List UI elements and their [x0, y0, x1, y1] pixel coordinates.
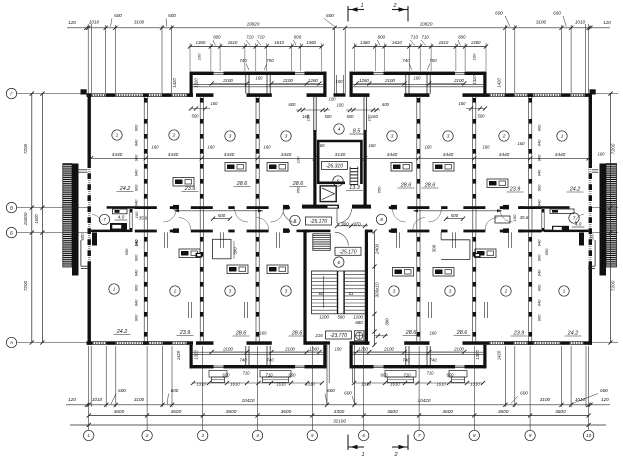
piers on axis A line inside bottom bays — [196, 341, 214, 345]
svg-text:28.6: 28.6 — [291, 331, 303, 337]
svg-text:3: 3 — [447, 134, 450, 139]
left balcony hatched strip — [63, 164, 72, 268]
upper stair flight (hatched) — [313, 234, 331, 251]
svg-text:680: 680 — [355, 320, 363, 325]
svg-text:100: 100 — [336, 79, 344, 84]
svg-text:13.3: 13.3 — [349, 185, 360, 191]
svg-text:3440: 3440 — [112, 152, 123, 158]
svg-text:940: 940 — [134, 269, 139, 276]
svg-text:1: 1 — [361, 452, 364, 458]
svg-text:3600: 3600 — [555, 409, 566, 415]
svg-text:600: 600 — [80, 233, 85, 241]
svg-text:940: 940 — [537, 299, 542, 306]
bottom main dimension chain — [66, 404, 610, 406]
svg-text:2100: 2100 — [384, 78, 395, 83]
svg-text:-23.770: -23.770 — [330, 333, 347, 339]
svg-text:4.0: 4.0 — [118, 215, 125, 221]
svg-text:1260: 1260 — [308, 78, 318, 83]
stair enclosure right wall lower — [365, 230, 368, 345]
svg-text:10420: 10420 — [242, 398, 255, 403]
left balcony top connector — [78, 169, 88, 171]
svg-text:1610: 1610 — [274, 40, 284, 45]
bay side wall right — [483, 72, 486, 97]
ventilation block — [173, 178, 194, 187]
svg-text:1420: 1420 — [497, 350, 502, 360]
ventilation block — [433, 163, 454, 172]
svg-text:3440: 3440 — [168, 152, 179, 158]
svg-text:900: 900 — [134, 124, 139, 131]
window gaps in left outer wall at balcony — [88, 168, 91, 173]
top-right corner pier outside wall — [590, 89, 596, 94]
piers on axis G line inside bays — [196, 93, 214, 97]
corridor wall stubs on axis V — [170, 206, 176, 209]
right balcony hatched strip — [606, 164, 617, 268]
svg-text:3600: 3600 — [114, 409, 125, 415]
svg-text:160: 160 — [430, 331, 438, 336]
svg-text:600: 600 — [344, 391, 352, 396]
svg-text:3440: 3440 — [555, 152, 566, 158]
T-stub walls hanging from corridor walls — [164, 232, 166, 248]
svg-text:3600: 3600 — [281, 409, 292, 415]
svg-text:710: 710 — [243, 371, 251, 376]
corridor walls: T-flanges at partitions and stubs with door gaps — [135, 206, 157, 209]
svg-text:600: 600 — [378, 35, 386, 40]
bay side wall left — [190, 72, 193, 97]
window band above bottom bays — [193, 351, 324, 353]
second top chain over bay 2 — [354, 46, 486, 48]
svg-text:710: 710 — [422, 35, 430, 40]
svg-text:В: В — [10, 205, 13, 210]
svg-text:32100: 32100 — [333, 419, 346, 424]
interior partition wall at x=146 — [143, 232, 145, 341]
svg-text:8: 8 — [380, 217, 383, 222]
svg-text:500: 500 — [325, 114, 333, 119]
svg-text:3: 3 — [285, 289, 288, 294]
svg-text:160: 160 — [256, 76, 264, 81]
extension lines top — [105, 25, 107, 93]
svg-text:3600: 3600 — [226, 409, 237, 415]
left axis extension lines — [17, 93, 88, 95]
svg-text:6: 6 — [338, 260, 341, 265]
top-left corner pier outside wall — [81, 89, 87, 94]
svg-text:1010: 1010 — [89, 20, 100, 25]
svg-text:600: 600 — [289, 373, 297, 378]
interior partition wall at x=258 — [255, 232, 257, 341]
svg-text:900: 900 — [537, 254, 542, 261]
svg-text:160: 160 — [598, 152, 606, 157]
svg-text:2: 2 — [173, 289, 177, 294]
svg-text:120: 120 — [68, 20, 76, 25]
svg-text:580: 580 — [337, 315, 345, 320]
left vertical chain 7200/1600/7200 — [31, 94, 33, 343]
svg-text:2: 2 — [392, 3, 396, 9]
ventilation block — [433, 268, 454, 277]
svg-text:740: 740 — [402, 58, 410, 63]
svg-text:10820: 10820 — [420, 22, 433, 27]
svg-text:940: 940 — [537, 269, 542, 276]
svg-text:8: 8 — [294, 218, 297, 223]
stair enclosure left wall lower — [303, 230, 306, 345]
svg-text:Б: Б — [10, 230, 13, 235]
duct square on partition lower-left — [196, 253, 203, 258]
svg-text:160: 160 — [367, 114, 372, 121]
svg-text:900: 900 — [134, 284, 139, 291]
svg-text:1420: 1420 — [172, 78, 177, 88]
svg-text:1360: 1360 — [360, 40, 370, 45]
svg-text:28.6: 28.6 — [235, 331, 247, 337]
svg-text:160: 160 — [425, 145, 433, 150]
svg-text:100: 100 — [329, 97, 337, 102]
door arc at stair top — [337, 209, 352, 224]
ventilation block — [267, 163, 288, 172]
svg-text:1600: 1600 — [34, 214, 39, 224]
svg-text:120: 120 — [601, 397, 609, 402]
svg-text:650: 650 — [296, 186, 301, 193]
entrance steps below bottom bays — [209, 371, 227, 378]
short wall stubs below axis-B wall in lower rooms — [188, 302, 190, 318]
svg-text:2100: 2100 — [284, 347, 295, 352]
svg-text:10: 10 — [586, 433, 592, 438]
svg-text:8.5: 8.5 — [353, 129, 361, 135]
svg-text:600: 600 — [327, 388, 335, 393]
svg-text:710: 710 — [411, 35, 419, 40]
svg-text:1610: 1610 — [392, 40, 402, 45]
floor drain symbol — [355, 331, 365, 341]
svg-text:1200: 1200 — [353, 315, 363, 320]
stair arrow line — [323, 276, 325, 308]
svg-text:1610: 1610 — [276, 382, 286, 387]
interior partition wall at x=418 — [416, 232, 418, 341]
interior partition wall at x=530 — [528, 232, 530, 341]
svg-text:23.9: 23.9 — [513, 331, 525, 337]
bay notch partition walls (bottom) — [405, 346, 407, 365]
svg-text:500: 500 — [192, 114, 200, 119]
svg-text:10820: 10820 — [247, 22, 260, 27]
svg-text:160: 160 — [369, 143, 377, 148]
svg-text:24.2: 24.2 — [119, 186, 131, 192]
svg-text:3140: 3140 — [335, 152, 346, 158]
svg-text:3: 3 — [393, 289, 396, 294]
svg-text:3100: 3100 — [134, 20, 145, 25]
stair core left wall upper — [313, 97, 315, 131]
svg-text:160: 160 — [211, 101, 219, 106]
svg-text:710: 710 — [266, 373, 274, 378]
middle recess slot between bottom bays — [326, 345, 328, 405]
bay notch partition walls (bottom) — [245, 346, 247, 365]
interior partition wall at x=474 — [472, 232, 474, 341]
svg-text:3: 3 — [285, 134, 288, 139]
svg-text:16000: 16000 — [23, 212, 28, 225]
svg-text:3: 3 — [229, 134, 232, 139]
right balcony bottom connector — [594, 240, 596, 266]
svg-text:7200: 7200 — [611, 280, 617, 291]
svg-text:4: 4 — [256, 433, 259, 438]
svg-text:750: 750 — [429, 58, 437, 63]
outer wall: top wall along axis G, right part with windows — [483, 93, 490, 97]
svg-text:3100: 3100 — [134, 397, 145, 402]
storage square lower-left with 500 dim — [213, 239, 232, 258]
svg-text:900: 900 — [134, 254, 139, 261]
svg-text:740: 740 — [266, 358, 274, 363]
svg-text:60: 60 — [319, 291, 324, 296]
level mark box -23.770 — [326, 331, 352, 339]
svg-text:600: 600 — [118, 388, 126, 393]
short dim lines under piers — [191, 108, 210, 110]
svg-text:1010: 1010 — [575, 397, 586, 402]
overall dimension chain 32100 — [70, 424, 606, 426]
interior partition wall at x=202 — [199, 97, 201, 206]
inner dimension line y=158 with 3440 labels — [91, 157, 589, 159]
svg-text:1200: 1200 — [319, 315, 329, 320]
svg-text:2: 2 — [393, 452, 397, 458]
svg-text:100: 100 — [197, 53, 202, 60]
ventilation block — [393, 268, 414, 277]
WC fixtures right end — [550, 209, 574, 214]
interior partition wall at x=258 — [255, 97, 257, 206]
svg-text:160: 160 — [414, 76, 422, 81]
bay window outer wall (top) — [350, 72, 374, 75]
svg-text:-25.170: -25.170 — [310, 219, 327, 225]
stair enclosure top ledge — [297, 230, 331, 233]
svg-text:1010: 1010 — [92, 397, 103, 402]
corridor wall stubs on axis B — [170, 230, 176, 233]
bay side wall right — [323, 72, 326, 97]
svg-text:1610: 1610 — [439, 40, 449, 45]
svg-text:1360: 1360 — [471, 40, 481, 45]
svg-text:600: 600 — [590, 233, 595, 241]
svg-text:940: 940 — [134, 139, 139, 146]
svg-text:1320: 1320 — [472, 75, 477, 85]
extension lines left bottom — [105, 346, 107, 407]
svg-text:600: 600 — [600, 388, 608, 393]
svg-text:35.6: 35.6 — [139, 216, 148, 221]
WC fixtures left end — [113, 209, 128, 214]
door arc left of core — [283, 209, 297, 223]
svg-text:600: 600 — [213, 35, 221, 40]
svg-text:650: 650 — [134, 239, 139, 246]
svg-text:1: 1 — [116, 133, 119, 138]
svg-text:160: 160 — [459, 101, 467, 106]
bay window glazing lines in wall gaps — [374, 72, 384, 74]
svg-text:600: 600 — [495, 11, 503, 16]
interior partition wall at x=418 — [416, 97, 418, 206]
level mark box -26.310 — [322, 162, 348, 170]
ventilation block — [267, 265, 288, 274]
door arc into stair — [335, 232, 349, 246]
svg-text:1010: 1010 — [575, 20, 586, 25]
outer wall: right wall on axis 10 — [589, 93, 592, 344]
svg-text:900: 900 — [537, 154, 542, 161]
outer wall: top wall along axis G, left part with windows — [87, 93, 92, 97]
svg-text:216: 216 — [314, 333, 323, 338]
svg-text:1320: 1320 — [194, 78, 199, 88]
svg-text:1610: 1610 — [436, 382, 446, 387]
svg-text:1: 1 — [360, 3, 363, 9]
right axis extension lines — [592, 93, 618, 95]
svg-text:120: 120 — [603, 20, 611, 25]
machine room walls — [318, 141, 361, 184]
room circle 5 and 8 and 7 — [333, 176, 343, 186]
svg-text:710: 710 — [427, 371, 435, 376]
interior partition wall at x=530 — [528, 97, 530, 206]
core footing blocks at corridor — [302, 205, 339, 209]
small square piers in corridor — [173, 205, 179, 210]
svg-text:600: 600 — [114, 13, 122, 18]
left balcony bottom connector — [80, 240, 82, 266]
ventilation block — [391, 163, 412, 172]
second top chain over bay 1 — [190, 46, 322, 48]
svg-text:3: 3 — [201, 433, 204, 438]
svg-text:600: 600 — [553, 11, 561, 16]
svg-text:650: 650 — [377, 186, 382, 193]
svg-text:2: 2 — [504, 289, 508, 294]
svg-text:600: 600 — [168, 13, 176, 18]
svg-text:3600: 3600 — [387, 409, 398, 415]
svg-text:3600: 3600 — [442, 409, 453, 415]
svg-text:3600: 3600 — [498, 409, 509, 415]
svg-text:160: 160 — [152, 145, 160, 150]
svg-text:600: 600 — [223, 373, 231, 378]
svg-text:1260: 1260 — [309, 347, 319, 352]
svg-text:600: 600 — [294, 35, 302, 40]
left axis circles — [6, 88, 16, 98]
svg-text:970: 970 — [353, 222, 361, 227]
door swing arcs in corridor walls — [163, 209, 176, 222]
svg-text:7: 7 — [418, 433, 421, 438]
main stair flights — [312, 271, 366, 314]
stair core right wall upper — [363, 97, 365, 131]
svg-text:600: 600 — [381, 373, 389, 378]
interior partition wall at x=146 — [143, 97, 145, 206]
svg-text:100: 100 — [337, 103, 345, 108]
svg-text:1320: 1320 — [475, 350, 480, 360]
svg-text:1: 1 — [113, 287, 116, 292]
svg-text:160: 160 — [518, 141, 526, 146]
svg-text:940: 940 — [537, 169, 542, 176]
svg-text:3: 3 — [449, 289, 452, 294]
svg-text:28.6: 28.6 — [456, 330, 468, 336]
svg-text:3600: 3600 — [171, 409, 182, 415]
svg-text:1420: 1420 — [497, 78, 502, 88]
svg-text:900: 900 — [134, 154, 139, 161]
svg-text:35.6: 35.6 — [520, 215, 529, 220]
svg-text:28.6: 28.6 — [292, 181, 304, 187]
svg-text:940: 940 — [134, 169, 139, 176]
right vertical chain — [610, 94, 612, 343]
svg-text:1610: 1610 — [228, 40, 238, 45]
level mark box -25.170 (corridor) — [306, 217, 332, 225]
svg-text:1260: 1260 — [359, 78, 369, 83]
svg-text:2100: 2100 — [383, 347, 394, 352]
svg-text:600: 600 — [520, 391, 528, 396]
svg-text:650: 650 — [124, 248, 129, 255]
core right vertical dim chain — [374, 232, 376, 345]
svg-text:600: 600 — [382, 102, 390, 107]
svg-text:1360: 1360 — [306, 40, 316, 45]
svg-text:24.2: 24.2 — [116, 329, 128, 335]
bay side walls (bottom) — [350, 345, 353, 369]
svg-text:7200: 7200 — [611, 143, 617, 154]
machine room ladder — [350, 168, 358, 170]
interior partition wall at x=202 — [199, 232, 201, 341]
svg-text:600: 600 — [458, 35, 466, 40]
svg-text:7200: 7200 — [23, 280, 28, 291]
bottom axis circles 1-10 — [84, 430, 94, 440]
svg-text:9: 9 — [529, 433, 532, 438]
svg-text:1: 1 — [561, 134, 564, 139]
svg-text:740: 740 — [239, 58, 247, 63]
svg-text:3: 3 — [229, 289, 232, 294]
svg-text:28.6: 28.6 — [400, 183, 412, 189]
svg-text:10420: 10420 — [418, 398, 431, 403]
svg-text:940: 940 — [537, 139, 542, 146]
svg-text:23.9: 23.9 — [179, 330, 191, 336]
bay window outer wall (top) — [190, 72, 214, 75]
ventilation block — [179, 249, 200, 258]
left balcony solid parapet — [72, 164, 79, 276]
bay outer wall (bottom) — [350, 365, 374, 368]
svg-text:740: 740 — [239, 358, 247, 363]
outer wall: bottom wall along axis A, left part with windows — [87, 341, 93, 345]
svg-text:160: 160 — [306, 114, 311, 121]
left vertical chain 16000 — [41, 94, 43, 343]
bay window glazing lines (bottom) — [214, 365, 224, 367]
svg-text:940: 940 — [537, 239, 542, 246]
svg-text:2: 2 — [172, 133, 176, 138]
window gaps in right outer wall at balcony — [589, 168, 592, 173]
svg-text:3300: 3300 — [334, 409, 345, 415]
outer wall: left wall on axis 1 — [88, 93, 91, 344]
top main dimension chain — [67, 27, 610, 29]
svg-text:3: 3 — [391, 134, 394, 139]
right balcony solid parapet — [600, 164, 607, 276]
svg-text:А: А — [9, 340, 13, 345]
room number circles upper — [112, 130, 122, 140]
svg-text:500: 500 — [451, 213, 459, 218]
svg-text:940: 940 — [537, 199, 542, 206]
outer wall: bottom wall along axis A, right part with windows — [483, 341, 490, 345]
svg-text:24.2: 24.2 — [569, 187, 581, 193]
svg-text:61: 61 — [349, 291, 354, 296]
svg-text:8: 8 — [473, 433, 476, 438]
svg-text:160: 160 — [371, 114, 379, 119]
svg-text:500: 500 — [218, 213, 226, 218]
dim 500 on corridor left — [213, 218, 230, 220]
storage square lower-right with 500 dim — [441, 240, 470, 260]
extension stubs for bay chain — [189, 43, 191, 71]
svg-text:1610: 1610 — [390, 382, 400, 387]
elevator shaft — [320, 186, 336, 202]
svg-text:500: 500 — [233, 247, 238, 255]
svg-text:3440: 3440 — [224, 152, 235, 158]
bay window glazing lines in wall gaps — [214, 72, 224, 74]
svg-text:3100: 3100 — [540, 397, 551, 402]
svg-text:2100: 2100 — [222, 347, 233, 352]
ventilation block — [475, 249, 496, 258]
svg-text:1360: 1360 — [196, 40, 206, 45]
svg-text:160: 160 — [134, 211, 139, 218]
svg-text:28.6: 28.6 — [405, 330, 417, 336]
svg-text:750: 750 — [266, 58, 274, 63]
svg-text:2100: 2100 — [222, 78, 233, 83]
svg-text:500: 500 — [347, 114, 355, 119]
interior partition wall at x=474 — [472, 97, 474, 206]
svg-text:3440: 3440 — [499, 152, 510, 158]
svg-text:1610: 1610 — [230, 382, 240, 387]
svg-text:1600: 1600 — [600, 214, 605, 224]
room number circles lower — [109, 284, 119, 294]
svg-text:23.9: 23.9 — [509, 187, 521, 193]
